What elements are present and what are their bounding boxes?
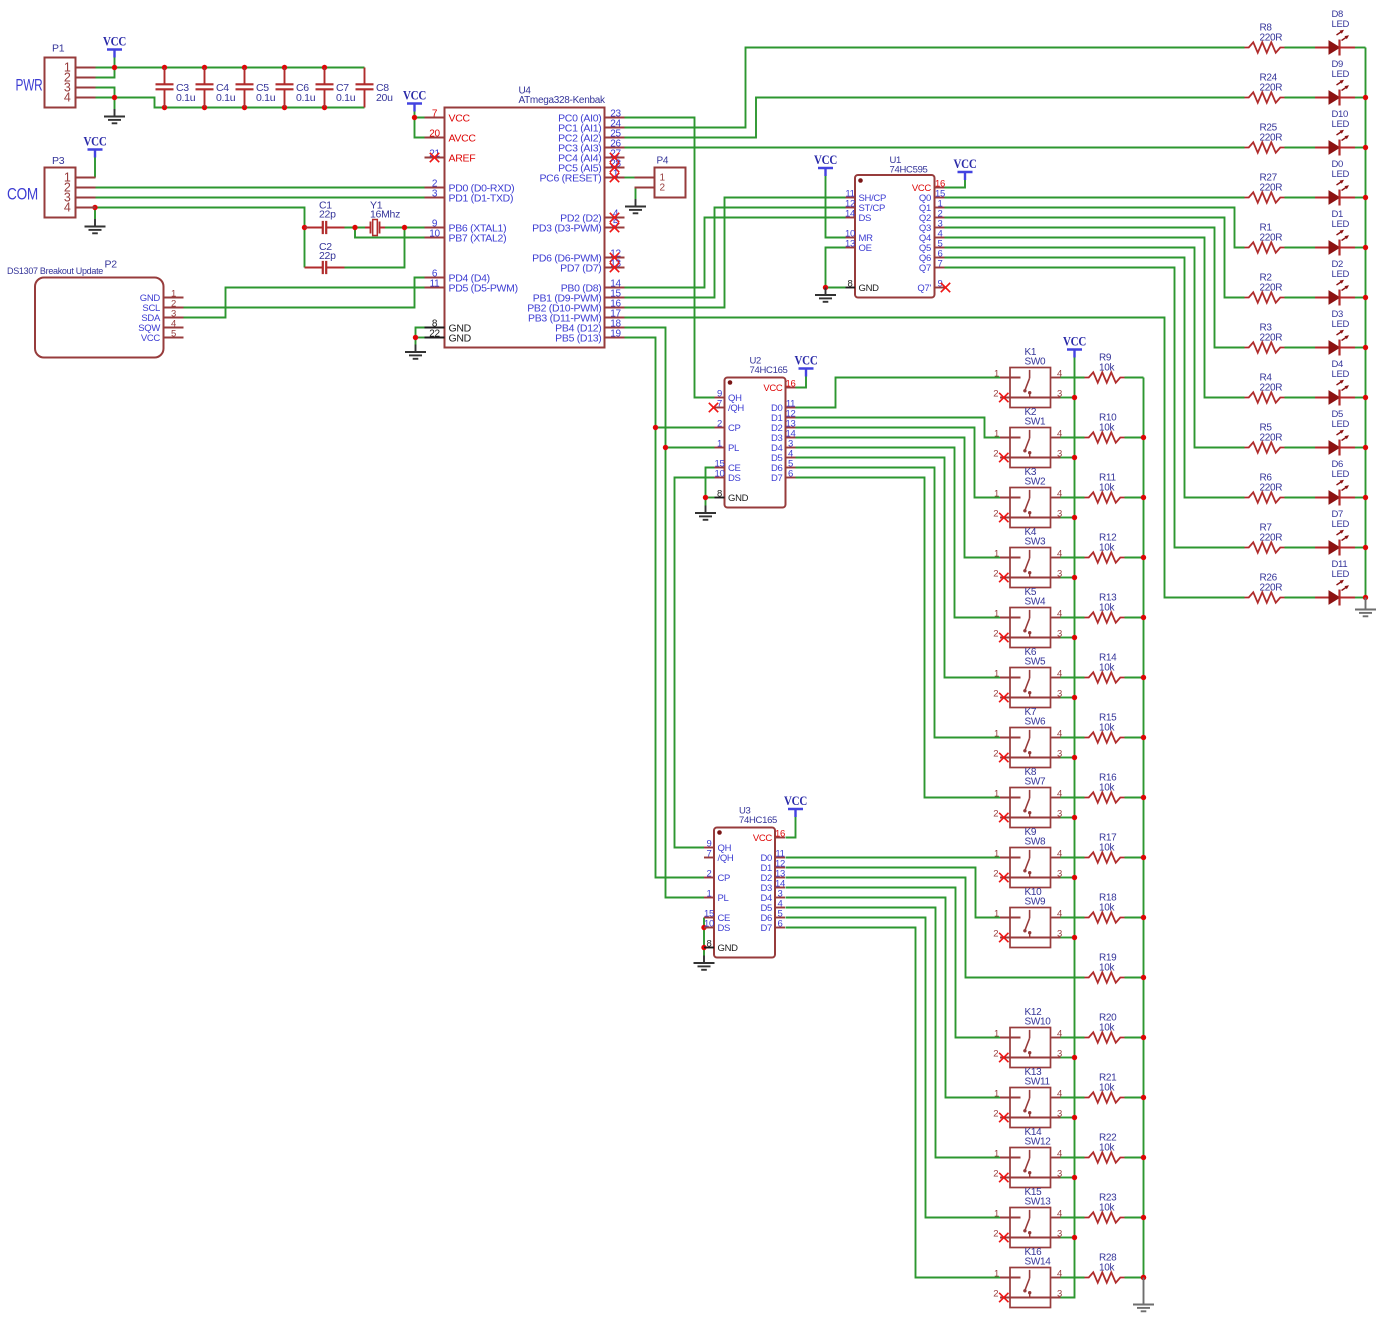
svg-text:4: 4 bbox=[1057, 1268, 1062, 1279]
svg-text:2: 2 bbox=[707, 868, 712, 879]
svg-text:0.1u: 0.1u bbox=[176, 92, 196, 104]
svg-text:20u: 20u bbox=[376, 92, 393, 104]
svg-text:3: 3 bbox=[1057, 748, 1062, 759]
svg-text:3: 3 bbox=[1057, 928, 1062, 939]
svg-text:10k: 10k bbox=[1099, 1083, 1116, 1094]
svg-text:10k: 10k bbox=[1099, 1203, 1116, 1214]
svg-text:2: 2 bbox=[993, 388, 998, 399]
svg-text:7: 7 bbox=[938, 258, 943, 269]
svg-text:6: 6 bbox=[778, 918, 783, 929]
svg-text:10k: 10k bbox=[1099, 363, 1116, 374]
svg-text:PWR: PWR bbox=[16, 76, 43, 95]
svg-text:P2: P2 bbox=[105, 259, 118, 271]
svg-text:PC6 (RESET): PC6 (RESET) bbox=[539, 172, 601, 184]
svg-text:VCC: VCC bbox=[814, 153, 837, 167]
svg-text:10k: 10k bbox=[1099, 1263, 1116, 1274]
svg-text:D7: D7 bbox=[771, 473, 783, 484]
svg-text:22: 22 bbox=[429, 328, 440, 339]
svg-text:220R: 220R bbox=[1260, 133, 1283, 144]
svg-text:10k: 10k bbox=[1099, 603, 1116, 614]
svg-text:7: 7 bbox=[432, 108, 438, 119]
svg-text:1: 1 bbox=[994, 728, 999, 739]
svg-text:3: 3 bbox=[1057, 1168, 1062, 1179]
svg-text:LED: LED bbox=[1332, 469, 1350, 480]
svg-text:4: 4 bbox=[1057, 1028, 1062, 1039]
svg-text:4: 4 bbox=[1057, 548, 1062, 559]
svg-text:VCC: VCC bbox=[795, 353, 818, 367]
svg-text:22p: 22p bbox=[319, 209, 336, 221]
svg-text:4: 4 bbox=[1057, 1208, 1062, 1219]
svg-text:PD1 (D1-TXD): PD1 (D1-TXD) bbox=[449, 192, 514, 204]
svg-text:LED: LED bbox=[1332, 169, 1350, 180]
svg-text:PD7 (D7): PD7 (D7) bbox=[560, 262, 601, 274]
svg-text:VCC: VCC bbox=[103, 34, 126, 48]
svg-text:1: 1 bbox=[994, 368, 999, 379]
svg-text:10: 10 bbox=[429, 228, 440, 239]
svg-text:SW9: SW9 bbox=[1025, 897, 1047, 908]
svg-text:VCC: VCC bbox=[403, 88, 426, 102]
svg-text:VCC: VCC bbox=[784, 794, 807, 808]
svg-text:LED: LED bbox=[1332, 69, 1350, 80]
svg-text:220R: 220R bbox=[1260, 433, 1283, 444]
svg-text:220R: 220R bbox=[1260, 83, 1283, 94]
svg-text:0.1u: 0.1u bbox=[336, 92, 356, 104]
svg-text:SW5: SW5 bbox=[1025, 657, 1047, 668]
svg-text:1: 1 bbox=[994, 548, 999, 559]
svg-text:2: 2 bbox=[993, 448, 998, 459]
svg-text:VCC: VCC bbox=[84, 134, 107, 148]
svg-text:GND: GND bbox=[718, 943, 739, 954]
svg-text:2: 2 bbox=[993, 1288, 998, 1299]
svg-text:3: 3 bbox=[1057, 568, 1062, 579]
svg-text:SW1: SW1 bbox=[1025, 417, 1047, 428]
svg-text:/QH: /QH bbox=[728, 403, 744, 414]
svg-text:SW13: SW13 bbox=[1025, 1197, 1052, 1208]
svg-text:74HC165: 74HC165 bbox=[739, 815, 777, 826]
svg-text:6: 6 bbox=[788, 468, 793, 479]
svg-text:8: 8 bbox=[717, 488, 722, 499]
svg-text:SW7: SW7 bbox=[1025, 777, 1047, 788]
svg-text:1: 1 bbox=[994, 1148, 999, 1159]
svg-text:220R: 220R bbox=[1260, 283, 1283, 294]
svg-text:74HC595: 74HC595 bbox=[890, 165, 928, 176]
svg-text:GND: GND bbox=[859, 283, 880, 294]
svg-text:PD5 (D5-PWM): PD5 (D5-PWM) bbox=[449, 282, 518, 294]
svg-text:2: 2 bbox=[993, 748, 998, 759]
svg-text:7: 7 bbox=[707, 848, 712, 859]
svg-text:4: 4 bbox=[1057, 608, 1062, 619]
svg-text:220R: 220R bbox=[1260, 533, 1283, 544]
svg-text:14: 14 bbox=[845, 208, 855, 219]
svg-text:D7: D7 bbox=[760, 923, 772, 934]
svg-text:2: 2 bbox=[660, 183, 666, 194]
svg-text:P4: P4 bbox=[657, 156, 669, 167]
svg-text:LED: LED bbox=[1332, 569, 1350, 580]
svg-text:20: 20 bbox=[429, 128, 440, 139]
svg-text:4: 4 bbox=[1057, 788, 1062, 799]
svg-text:SW14: SW14 bbox=[1025, 1257, 1052, 1268]
svg-text:3: 3 bbox=[1057, 1048, 1062, 1059]
svg-text:22p: 22p bbox=[319, 250, 336, 262]
svg-text:3: 3 bbox=[1057, 1228, 1062, 1239]
svg-text:GND: GND bbox=[449, 332, 472, 344]
svg-text:2: 2 bbox=[993, 1108, 998, 1119]
svg-text:4: 4 bbox=[1057, 668, 1062, 679]
svg-text:1: 1 bbox=[994, 1268, 999, 1279]
svg-text:LED: LED bbox=[1332, 369, 1350, 380]
svg-text:0.1u: 0.1u bbox=[216, 92, 236, 104]
svg-text:220R: 220R bbox=[1260, 383, 1283, 394]
svg-text:2: 2 bbox=[993, 688, 998, 699]
svg-text:16Mhz: 16Mhz bbox=[370, 209, 400, 221]
svg-text:3: 3 bbox=[1057, 388, 1062, 399]
svg-text:2: 2 bbox=[993, 868, 998, 879]
svg-text:ATmega328-Kenbak: ATmega328-Kenbak bbox=[519, 95, 606, 106]
svg-text:LED: LED bbox=[1332, 319, 1350, 330]
svg-text:16: 16 bbox=[775, 828, 785, 839]
svg-text:VCC: VCC bbox=[449, 112, 471, 124]
svg-text:CP: CP bbox=[718, 873, 731, 884]
svg-text:SW11: SW11 bbox=[1025, 1077, 1051, 1088]
svg-text:3: 3 bbox=[1057, 868, 1062, 879]
svg-text:4: 4 bbox=[1057, 428, 1062, 439]
svg-text:3: 3 bbox=[1057, 808, 1062, 819]
svg-text:LED: LED bbox=[1332, 269, 1350, 280]
svg-text:1: 1 bbox=[994, 908, 999, 919]
svg-text:1: 1 bbox=[994, 668, 999, 679]
svg-text:1: 1 bbox=[994, 1208, 999, 1219]
svg-text:13: 13 bbox=[845, 238, 855, 249]
svg-text:4: 4 bbox=[1057, 848, 1062, 859]
svg-text:VCC: VCC bbox=[753, 833, 773, 844]
svg-text:4: 4 bbox=[1057, 908, 1062, 919]
svg-text:10k: 10k bbox=[1099, 1023, 1116, 1034]
svg-text:SW0: SW0 bbox=[1025, 357, 1047, 368]
svg-text:LED: LED bbox=[1332, 419, 1350, 430]
svg-text:10k: 10k bbox=[1099, 843, 1116, 854]
svg-text:VCC: VCC bbox=[954, 157, 977, 171]
svg-text:DS1307 Breakout Update: DS1307 Breakout Update bbox=[7, 266, 103, 276]
svg-text:SW12: SW12 bbox=[1025, 1137, 1052, 1148]
svg-text:220R: 220R bbox=[1260, 483, 1283, 494]
svg-text:AREF: AREF bbox=[449, 152, 476, 164]
svg-text:1: 1 bbox=[994, 788, 999, 799]
svg-text:VCC: VCC bbox=[763, 383, 783, 394]
svg-text:4: 4 bbox=[1057, 1148, 1062, 1159]
svg-text:VCC: VCC bbox=[1063, 334, 1086, 348]
svg-text:SW6: SW6 bbox=[1025, 717, 1047, 728]
svg-text:LED: LED bbox=[1332, 119, 1350, 130]
svg-text:/QH: /QH bbox=[718, 853, 734, 864]
svg-text:PL: PL bbox=[718, 893, 729, 904]
svg-text:3: 3 bbox=[1057, 508, 1062, 519]
svg-text:4: 4 bbox=[64, 91, 71, 105]
svg-text:PD3 (D3-PWM): PD3 (D3-PWM) bbox=[532, 222, 601, 234]
svg-text:2: 2 bbox=[993, 1228, 998, 1239]
svg-text:GND: GND bbox=[728, 493, 749, 504]
svg-text:2: 2 bbox=[993, 508, 998, 519]
svg-text:PL: PL bbox=[728, 443, 739, 454]
svg-text:2: 2 bbox=[993, 808, 998, 819]
svg-text:DS: DS bbox=[718, 923, 731, 934]
svg-text:AVCC: AVCC bbox=[449, 132, 477, 144]
svg-text:8: 8 bbox=[707, 938, 712, 949]
svg-text:SW2: SW2 bbox=[1025, 477, 1047, 488]
svg-text:3: 3 bbox=[1057, 1288, 1062, 1299]
svg-text:4: 4 bbox=[1057, 728, 1062, 739]
svg-text:3: 3 bbox=[1057, 1108, 1062, 1119]
svg-text:3: 3 bbox=[1057, 448, 1062, 459]
svg-text:SW10: SW10 bbox=[1025, 1017, 1052, 1028]
svg-text:1: 1 bbox=[994, 608, 999, 619]
svg-text:4: 4 bbox=[64, 201, 71, 215]
svg-text:LED: LED bbox=[1332, 519, 1350, 530]
svg-text:10k: 10k bbox=[1099, 663, 1116, 674]
svg-text:3: 3 bbox=[1057, 628, 1062, 639]
svg-text:0.1u: 0.1u bbox=[256, 92, 276, 104]
svg-text:P3: P3 bbox=[52, 155, 65, 167]
svg-text:10: 10 bbox=[715, 468, 725, 479]
svg-text:220R: 220R bbox=[1260, 33, 1283, 44]
svg-text:1: 1 bbox=[994, 1088, 999, 1099]
svg-text:2: 2 bbox=[993, 1168, 998, 1179]
svg-text:220R: 220R bbox=[1260, 333, 1283, 344]
svg-text:LED: LED bbox=[1332, 219, 1350, 230]
svg-text:1: 1 bbox=[717, 438, 722, 449]
svg-text:5: 5 bbox=[171, 328, 176, 339]
svg-text:PB5 (D13): PB5 (D13) bbox=[555, 332, 601, 344]
svg-text:DS: DS bbox=[728, 473, 741, 484]
svg-text:0.1u: 0.1u bbox=[296, 92, 316, 104]
svg-text:3: 3 bbox=[1057, 688, 1062, 699]
svg-text:PB7 (XTAL2): PB7 (XTAL2) bbox=[449, 232, 507, 244]
svg-text:2: 2 bbox=[993, 628, 998, 639]
svg-text:10k: 10k bbox=[1099, 783, 1116, 794]
svg-text:LED: LED bbox=[1332, 19, 1350, 30]
svg-text:4: 4 bbox=[1057, 1088, 1062, 1099]
svg-text:10k: 10k bbox=[1099, 963, 1116, 974]
svg-text:Q7': Q7' bbox=[917, 283, 931, 294]
svg-text:2: 2 bbox=[993, 568, 998, 579]
svg-text:2: 2 bbox=[993, 1048, 998, 1059]
svg-text:2: 2 bbox=[717, 418, 722, 429]
svg-text:4: 4 bbox=[1057, 488, 1062, 499]
svg-text:CP: CP bbox=[728, 423, 741, 434]
svg-text:10k: 10k bbox=[1099, 543, 1116, 554]
svg-text:19: 19 bbox=[610, 328, 621, 339]
svg-text:COM: COM bbox=[7, 185, 38, 204]
svg-text:SW3: SW3 bbox=[1025, 537, 1047, 548]
svg-text:220R: 220R bbox=[1260, 233, 1283, 244]
svg-text:1: 1 bbox=[994, 1028, 999, 1039]
svg-text:16: 16 bbox=[786, 378, 796, 389]
svg-text:8: 8 bbox=[848, 278, 853, 289]
svg-text:10k: 10k bbox=[1099, 483, 1116, 494]
svg-text:10: 10 bbox=[704, 918, 714, 929]
svg-text:10k: 10k bbox=[1099, 1143, 1116, 1154]
svg-text:SW8: SW8 bbox=[1025, 837, 1047, 848]
svg-text:P1: P1 bbox=[52, 43, 65, 55]
svg-text:SW4: SW4 bbox=[1025, 597, 1047, 608]
svg-text:1: 1 bbox=[994, 488, 999, 499]
svg-text:1: 1 bbox=[994, 428, 999, 439]
svg-text:220R: 220R bbox=[1260, 183, 1283, 194]
svg-text:DS: DS bbox=[859, 213, 872, 224]
svg-text:1: 1 bbox=[707, 888, 712, 899]
svg-text:10k: 10k bbox=[1099, 723, 1116, 734]
svg-text:1: 1 bbox=[994, 848, 999, 859]
svg-text:74HC165: 74HC165 bbox=[750, 365, 788, 376]
svg-text:10k: 10k bbox=[1099, 423, 1116, 434]
svg-text:OE: OE bbox=[859, 243, 872, 254]
svg-text:Q7: Q7 bbox=[919, 263, 931, 274]
svg-text:3: 3 bbox=[432, 188, 438, 199]
svg-text:220R: 220R bbox=[1260, 583, 1283, 594]
svg-text:10k: 10k bbox=[1099, 903, 1116, 914]
svg-text:VCC: VCC bbox=[141, 333, 161, 344]
svg-text:4: 4 bbox=[1057, 368, 1062, 379]
svg-text:2: 2 bbox=[993, 928, 998, 939]
svg-text:11: 11 bbox=[430, 278, 441, 289]
